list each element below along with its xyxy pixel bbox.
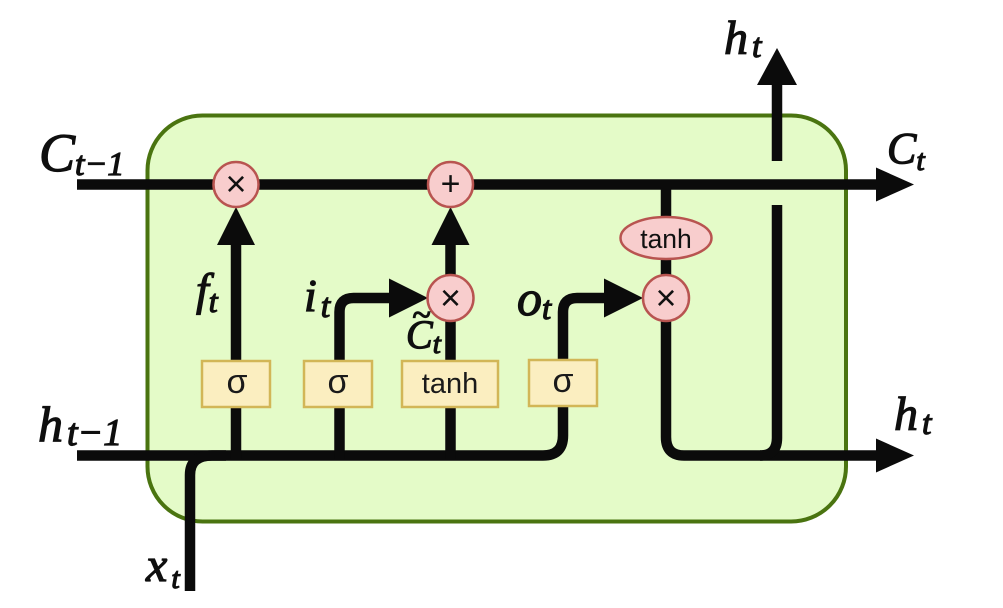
arrowhead h_t up bbox=[757, 48, 797, 85]
wire: cell state line C (top horizontal) bbox=[77, 179, 877, 190]
svg-text:tanh: tanh bbox=[640, 224, 692, 254]
arrowhead candidate into plus circle bbox=[432, 207, 470, 245]
wire: output of multiply down then right to h_t bbox=[666, 318, 877, 456]
multiply circle input x candidate bbox=[428, 275, 474, 321]
LSTM cell body (green rounded box) bbox=[148, 116, 847, 522]
svg-text:~: ~ bbox=[412, 297, 430, 334]
gate box sigma 1 (forget) bbox=[202, 361, 270, 407]
gate box sigma 2 (input) bbox=[304, 361, 372, 407]
wire: forget gate vertical f bbox=[231, 240, 242, 459]
wire: C line down to tanh ellipse and output multiply bbox=[661, 187, 672, 280]
svg-text:σ: σ bbox=[328, 363, 349, 401]
svg-text:σ: σ bbox=[227, 363, 248, 401]
svg-text:σ: σ bbox=[553, 362, 574, 400]
svg-text:tanh: tanh bbox=[422, 368, 478, 400]
gate box sigma 3 (output) bbox=[529, 360, 597, 406]
arrowhead i into multiply circle bbox=[389, 279, 428, 318]
wire: h_t branch going up below C line crossing bbox=[760, 205, 777, 456]
svg-text:×: × bbox=[225, 163, 246, 204]
wire: x_t input rising into bottom line bbox=[190, 456, 226, 592]
multiply circle on C line (forget) bbox=[214, 162, 259, 207]
arrowhead o gate into multiply bbox=[604, 279, 643, 318]
gate box tanh (candidate) bbox=[402, 361, 498, 407]
arrowhead C_t output right bbox=[876, 168, 914, 202]
wire: input gate i with corner bbox=[340, 298, 392, 459]
svg-text:+: + bbox=[441, 165, 461, 203]
svg-text:×: × bbox=[655, 277, 676, 318]
arrowhead h_t output right bbox=[876, 439, 914, 473]
wire: candidate line up to add circle bbox=[445, 240, 456, 459]
multiply circle output gate bbox=[643, 275, 689, 321]
wire: h_{t-1} bottom line continuing to output gate sigma bbox=[77, 298, 606, 456]
arrowhead f into multiply circle bbox=[217, 207, 255, 245]
svg-text:×: × bbox=[440, 277, 461, 318]
tanh ellipse on output path bbox=[621, 217, 712, 259]
wire: h_t branch upper segment above C line crossing bbox=[772, 85, 783, 161]
plus circle on C line bbox=[428, 162, 473, 207]
